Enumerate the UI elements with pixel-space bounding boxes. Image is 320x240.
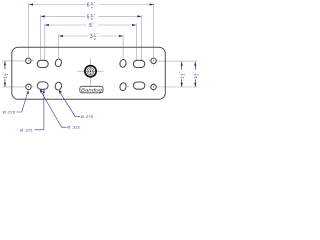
svg-text:2: 2 — [5, 73, 9, 75]
svg-text:": " — [1, 72, 5, 73]
svg-text:5: 5 — [87, 15, 90, 21]
svg-text:1: 1 — [2, 74, 6, 76]
svg-text:": " — [178, 72, 182, 73]
svg-text:8: 8 — [91, 17, 93, 21]
svg-text:Bandog: Bandog — [81, 88, 102, 93]
svg-text:1: 1 — [192, 74, 196, 76]
svg-text:": " — [94, 1, 96, 5]
svg-text:Ø .272: Ø .272 — [20, 127, 32, 132]
svg-text:4: 4 — [91, 5, 93, 9]
svg-text:": " — [93, 22, 95, 26]
svg-text:": " — [97, 33, 99, 37]
svg-text:": " — [94, 13, 96, 17]
svg-text:Ø .313: Ø .313 — [67, 125, 79, 130]
svg-text:Ø .270: Ø .270 — [81, 114, 94, 119]
svg-text:1: 1 — [178, 74, 182, 76]
svg-text:6: 6 — [87, 3, 90, 9]
svg-text:": " — [192, 72, 196, 73]
svg-text:Ø .270: Ø .270 — [3, 109, 16, 114]
svg-text:2: 2 — [182, 73, 186, 75]
svg-text:2: 2 — [196, 73, 200, 75]
svg-text:2: 2 — [94, 37, 96, 41]
svg-text:3: 3 — [90, 34, 93, 40]
